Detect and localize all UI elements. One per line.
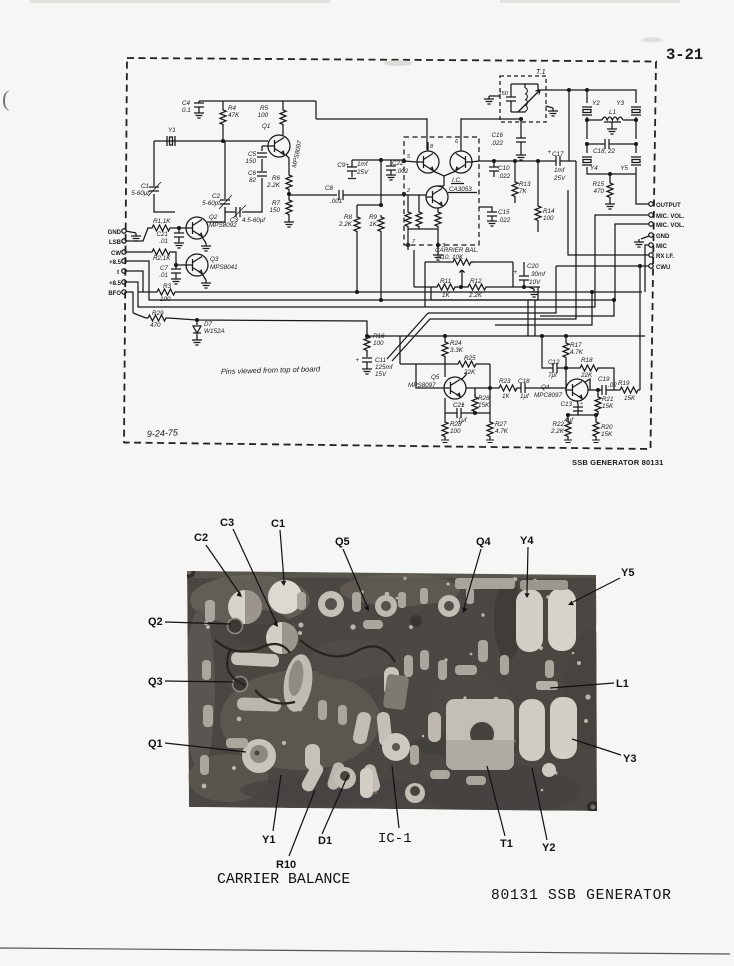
wire loop drop 1 bbox=[527, 300, 529, 336]
pin 5 stub bbox=[403, 154, 418, 163]
svg-text:GND: GND bbox=[656, 234, 670, 240]
wire staircase v2 bbox=[540, 300, 614, 316]
ground below C4 bbox=[194, 110, 204, 118]
capacitor C17 bbox=[540, 149, 576, 182]
terminal GND right bbox=[634, 233, 670, 247]
cap highlight texture bbox=[287, 659, 306, 697]
wire CW to R2 bbox=[126, 251, 150, 253]
transistor Q4 dot bbox=[410, 615, 422, 627]
svg-text:C9+: C9+ bbox=[337, 162, 349, 169]
svg-text:2: 2 bbox=[406, 188, 410, 194]
inductor L1 bbox=[586, 109, 638, 134]
crystal top shadow bbox=[520, 580, 568, 590]
svg-text:100: 100 bbox=[543, 215, 554, 222]
coil can 3 bbox=[438, 595, 460, 617]
svg-text:L1: L1 bbox=[609, 109, 616, 116]
svg-text:1K: 1K bbox=[369, 221, 378, 228]
wire emitter node to C8 bbox=[289, 194, 426, 196]
svg-text:Q3: Q3 bbox=[148, 676, 163, 688]
svg-text:MPS8092: MPS8092 bbox=[209, 222, 237, 229]
terminal MIC VOL 1 bbox=[649, 213, 685, 220]
svg-text:1K: 1K bbox=[502, 393, 511, 400]
crystal Y4 body bbox=[516, 589, 543, 652]
svg-text:150: 150 bbox=[269, 207, 280, 214]
svg-text:C8: C8 bbox=[325, 185, 334, 192]
resistor R3 bbox=[138, 283, 177, 303]
callout L1 bbox=[550, 678, 629, 690]
svg-text:0.1: 0.1 bbox=[182, 107, 191, 114]
capacitor C10 bbox=[489, 161, 511, 180]
terminal RX IF bbox=[649, 253, 675, 260]
terminal t bbox=[117, 269, 126, 276]
svg-text:R29: R29 bbox=[152, 310, 164, 317]
resistor R20 bbox=[593, 414, 613, 440]
junction R17 bottom bbox=[565, 367, 568, 370]
capacitor C15 bbox=[479, 207, 511, 226]
svg-text:15K: 15K bbox=[478, 402, 490, 409]
junction riser bottom bbox=[380, 204, 383, 207]
coil can 2 bbox=[375, 595, 397, 617]
svg-text:1mf: 1mf bbox=[554, 167, 566, 174]
svg-text:(: ( bbox=[2, 86, 9, 111]
IC internal resistor Rb bbox=[416, 195, 422, 229]
crystal Y2 bbox=[582, 90, 600, 139]
transistor Q4 bbox=[534, 379, 588, 401]
small pill 5 bbox=[428, 712, 441, 742]
small pill 6 bbox=[300, 761, 326, 794]
svg-text:15K: 15K bbox=[624, 395, 636, 402]
capacitor C18b bbox=[513, 378, 531, 400]
wire C1 branch bbox=[154, 141, 175, 212]
junction rail R24 bbox=[444, 335, 447, 338]
svg-text:R3: R3 bbox=[163, 283, 172, 290]
wire BFO bus bbox=[126, 292, 133, 313]
junction filter top left bbox=[586, 89, 589, 92]
svg-text:125mf: 125mf bbox=[375, 364, 394, 371]
svg-text:C20: C20 bbox=[527, 263, 539, 270]
svg-text:Y2: Y2 bbox=[542, 842, 555, 854]
svg-text:4.7K: 4.7K bbox=[495, 428, 509, 435]
svg-text:C2: C2 bbox=[194, 532, 208, 544]
svg-text:Q3: Q3 bbox=[210, 256, 219, 263]
dark wires on board bbox=[215, 640, 395, 704]
svg-text:Q2: Q2 bbox=[148, 616, 163, 628]
svg-text:150: 150 bbox=[245, 158, 256, 165]
callout Q3 bbox=[148, 676, 233, 688]
IC internal resistor Ra bbox=[405, 195, 411, 229]
terminal GND bbox=[108, 229, 141, 241]
svg-text:15K: 15K bbox=[601, 431, 613, 438]
resistor R9 bbox=[369, 214, 384, 300]
wire Y1 base rail bbox=[154, 140, 268, 142]
svg-text:Q4: Q4 bbox=[476, 536, 492, 548]
wire diag to C11 area bbox=[387, 313, 428, 359]
svg-text:2.2K: 2.2K bbox=[550, 428, 565, 435]
wire CW branch to R19 bbox=[639, 266, 641, 390]
callout Y4 bbox=[520, 535, 534, 598]
svg-text:+: + bbox=[513, 387, 517, 394]
crystal Y5 bbox=[620, 144, 641, 172]
wire R19 to CW drop bbox=[639, 389, 641, 391]
transformer T1 hole bbox=[470, 722, 494, 746]
svg-text:C4: C4 bbox=[182, 100, 191, 107]
svg-text:R1,1K: R1,1K bbox=[153, 218, 171, 225]
wire Q5 emitter to node bbox=[444, 398, 446, 413]
svg-text:R17: R17 bbox=[570, 342, 582, 349]
junction R15 top bbox=[609, 173, 612, 176]
svg-text:C10: C10 bbox=[498, 165, 510, 172]
resistor R7 bbox=[269, 191, 292, 219]
transistor Q2 bbox=[186, 214, 237, 239]
wire Q1 collector feed down bbox=[315, 101, 317, 119]
bottom rule line bbox=[0, 948, 730, 954]
coil Q5-area can bbox=[318, 591, 344, 617]
resistor R26 bbox=[472, 394, 490, 413]
wire output bbox=[636, 174, 649, 204]
svg-text:R10: R10 bbox=[276, 859, 296, 871]
svg-text:R22: R22 bbox=[552, 421, 564, 428]
svg-text:R26: R26 bbox=[478, 395, 490, 402]
svg-text:C11: C11 bbox=[375, 357, 386, 364]
svg-text:5-60pf: 5-60pf bbox=[202, 200, 221, 207]
callout T1 bbox=[487, 766, 513, 850]
resistor R23 bbox=[497, 378, 519, 400]
svg-text:R21: R21 bbox=[602, 396, 614, 403]
resistor R29 bbox=[133, 310, 168, 329]
ic body near center bbox=[383, 674, 410, 711]
capacitor C8 bbox=[325, 185, 343, 205]
wire +8.5a bus bbox=[126, 224, 649, 300]
wire +8.5b bus bbox=[126, 215, 649, 307]
svg-text:R5: R5 bbox=[260, 105, 269, 112]
svg-text:C12: C12 bbox=[548, 359, 560, 366]
resistor R6 bbox=[266, 173, 292, 191]
wire Q4 emitter node bbox=[568, 401, 598, 415]
transistor Q2 body bbox=[228, 619, 243, 634]
junction R25/Q5 collector bbox=[489, 387, 492, 390]
svg-text:2.2K: 2.2K bbox=[338, 221, 353, 228]
svg-text:7μf: 7μf bbox=[548, 372, 558, 379]
svg-text:C2: C2 bbox=[212, 193, 221, 200]
svg-text:C18, 22: C18, 22 bbox=[593, 148, 616, 155]
resistor R12 bbox=[457, 278, 540, 299]
svg-text:t: t bbox=[117, 270, 119, 276]
capacitor C12 bbox=[541, 335, 566, 379]
junction rail R16 bbox=[366, 335, 369, 338]
svg-text:BFO: BFO bbox=[108, 291, 121, 297]
terminal OUTPUT bbox=[649, 202, 681, 209]
resistor R13 bbox=[512, 161, 531, 203]
wire Q5 Q4 supply rail bbox=[367, 335, 645, 337]
svg-text:Q2: Q2 bbox=[209, 214, 218, 221]
wire R24 bottom node bbox=[400, 336, 445, 364]
transformer T1 shade bbox=[446, 740, 514, 770]
wire pot right down bbox=[512, 262, 514, 287]
capacitor C6 bbox=[248, 170, 267, 184]
transistor Q3 bbox=[186, 254, 238, 276]
svg-text:IC-1: IC-1 bbox=[378, 831, 412, 847]
transistor Q5 bbox=[408, 374, 466, 399]
wire IC emitters join bbox=[433, 171, 456, 186]
svg-text:R12: R12 bbox=[470, 278, 482, 285]
callout C2 bbox=[194, 532, 242, 597]
svg-text:C16: C16 bbox=[491, 132, 503, 139]
svg-text:MIC. VOL.: MIC. VOL. bbox=[656, 223, 685, 229]
electrolytic Q1 bbox=[242, 739, 276, 773]
svg-text:+: + bbox=[580, 401, 583, 407]
svg-text:T.1: T.1 bbox=[536, 69, 546, 76]
svg-text:+: + bbox=[513, 269, 517, 276]
terminal +8.5b bbox=[109, 280, 126, 287]
svg-text:R4: R4 bbox=[228, 105, 237, 112]
wire filter top bbox=[587, 90, 636, 102]
svg-text:.022: .022 bbox=[491, 140, 504, 147]
wire loop bottom bbox=[431, 287, 538, 300]
wire staircase v1 bbox=[495, 292, 592, 325]
resistor R24 bbox=[442, 336, 464, 364]
svg-text:OUTPUT: OUTPUT bbox=[656, 203, 681, 209]
svg-text:.02: .02 bbox=[608, 382, 617, 389]
callout D1 bbox=[318, 775, 348, 847]
pot 2 body bbox=[405, 783, 425, 803]
svg-text:R13: R13 bbox=[519, 181, 531, 188]
wire MIC feed bbox=[645, 245, 649, 292]
junction staircase v2 bbox=[613, 299, 616, 302]
pin 7 stub bbox=[407, 229, 417, 250]
svg-text:CWU: CWU bbox=[656, 265, 670, 271]
junction rail R17 bbox=[565, 335, 568, 338]
wire R3 right long bbox=[177, 291, 642, 293]
svg-text:C17: C17 bbox=[552, 151, 564, 158]
junction R4/Y1 bbox=[222, 140, 225, 143]
capacitor C1 (variable) bbox=[131, 182, 161, 197]
small pill 3 bbox=[352, 711, 372, 745]
crystal Y5 body bbox=[548, 588, 576, 651]
svg-text:CARRIER BALANCE: CARRIER BALANCE bbox=[217, 872, 350, 888]
junction filter/C17 bbox=[568, 89, 571, 92]
wire C2 branch bbox=[207, 141, 225, 222]
junction R9 bus bbox=[380, 299, 383, 302]
svg-text:CW: CW bbox=[111, 251, 121, 257]
svg-text:C21: C21 bbox=[156, 231, 168, 238]
wire y119 to IC T1 collector bbox=[316, 119, 427, 150]
small pill 8 bbox=[363, 763, 382, 793]
svg-text:+8.5: +8.5 bbox=[109, 281, 122, 287]
resistor R14 bbox=[535, 161, 555, 232]
terminal MIC bbox=[649, 243, 668, 250]
svg-text:Q4: Q4 bbox=[541, 384, 550, 391]
resistor R11 bbox=[414, 278, 457, 299]
wire CW right to bus bbox=[556, 265, 649, 267]
terminal CW right bbox=[649, 264, 671, 271]
wire LSB to R1 bbox=[126, 228, 150, 241]
callout IC-1 bbox=[378, 766, 412, 847]
capacitor C5 bbox=[245, 146, 268, 171]
transistor U1-T3 bbox=[426, 186, 448, 208]
resistor R16 bbox=[364, 333, 385, 357]
pcb mottling bbox=[185, 574, 615, 815]
svg-text:25V: 25V bbox=[356, 169, 369, 176]
svg-text:D1: D1 bbox=[318, 835, 332, 847]
capacitor C16 bbox=[491, 118, 526, 160]
wire R24 to Q5 bbox=[444, 364, 446, 377]
trimcap C3 body bbox=[266, 622, 298, 654]
capacitor C4 bbox=[182, 100, 204, 114]
svg-text:9-24-75: 9-24-75 bbox=[147, 427, 179, 439]
svg-text:100: 100 bbox=[373, 340, 384, 347]
svg-text:5-60μf: 5-60μf bbox=[131, 190, 150, 197]
svg-text:+8.5: +8.5 bbox=[109, 260, 122, 266]
bright pill near D1 bbox=[305, 744, 320, 770]
capacitor C11 bbox=[355, 357, 393, 378]
IC internal resistor Rc bbox=[435, 208, 441, 229]
callout Q2 bbox=[148, 616, 231, 628]
pin 3 stub with ground bbox=[433, 229, 446, 260]
wire loop drop 2 bbox=[534, 300, 536, 336]
IC label CA3053 bbox=[448, 177, 477, 193]
svg-text:R23: R23 bbox=[499, 378, 511, 385]
bright pill pair center bottom bbox=[360, 768, 373, 798]
crystal Y3 body bbox=[550, 697, 577, 759]
svg-text:7K: 7K bbox=[519, 188, 528, 195]
resistor pill 1 bbox=[231, 652, 280, 667]
resistor R2 bbox=[150, 249, 172, 262]
callout C3 bbox=[220, 517, 278, 627]
callout R10 bbox=[276, 790, 315, 871]
pot R10 body bbox=[334, 767, 356, 789]
svg-text:R19: R19 bbox=[618, 380, 630, 387]
svg-text:1K: 1K bbox=[442, 292, 451, 299]
callout Q1 bbox=[148, 738, 246, 752]
wire C9 line to IC pin5 bbox=[352, 160, 404, 205]
svg-text:C13: C13 bbox=[560, 401, 572, 408]
small pill 7 bbox=[326, 761, 346, 791]
dark patches bbox=[187, 571, 597, 804]
resistor R19 bbox=[618, 380, 640, 402]
wire C19 to R19 bbox=[606, 389, 618, 391]
resistor R27 bbox=[487, 413, 509, 440]
ground R27 bbox=[486, 440, 494, 443]
svg-text:CARRIER BAL.: CARRIER BAL. bbox=[435, 247, 479, 254]
svg-text:C6: C6 bbox=[248, 170, 257, 177]
svg-text:1μf: 1μf bbox=[520, 393, 530, 400]
svg-text:82: 82 bbox=[249, 177, 257, 184]
svg-text:R20: R20 bbox=[601, 424, 613, 431]
callout Y1 bbox=[262, 775, 281, 846]
svg-text:C15: C15 bbox=[498, 209, 510, 216]
svg-text:Q5: Q5 bbox=[431, 374, 440, 381]
svg-text:Y1: Y1 bbox=[262, 834, 275, 846]
svg-text:30mf: 30mf bbox=[531, 271, 546, 278]
svg-text:MPS8041: MPS8041 bbox=[210, 264, 238, 271]
svg-text:R27: R27 bbox=[495, 421, 507, 428]
wire T1 secondary to filter bbox=[538, 84, 587, 90]
svg-text:15V: 15V bbox=[375, 371, 387, 378]
svg-text:R2,1K: R2,1K bbox=[153, 255, 171, 262]
wire R17 to Q4 base bbox=[565, 368, 567, 390]
svg-text:.001: .001 bbox=[330, 198, 342, 205]
resistor R22 bbox=[550, 414, 571, 440]
screw top-left bbox=[183, 566, 195, 578]
board texture glints bbox=[202, 576, 591, 794]
trimcap C1 body bbox=[268, 580, 302, 614]
svg-text:MPC8097: MPC8097 bbox=[534, 392, 562, 399]
svg-text:C3: C3 bbox=[220, 517, 234, 529]
svg-text:.022: .022 bbox=[498, 217, 511, 224]
svg-text:Y1: Y1 bbox=[168, 127, 176, 134]
junction staircase v1 bbox=[591, 291, 594, 294]
trimcap shading bbox=[245, 590, 298, 654]
svg-text:C18: C18 bbox=[518, 378, 530, 385]
crystal Y4 bbox=[582, 144, 598, 172]
svg-text:2.2K: 2.2K bbox=[468, 292, 483, 299]
svg-text:+: + bbox=[461, 402, 465, 409]
transistor Q1 bbox=[262, 123, 304, 168]
svg-text:Q1: Q1 bbox=[148, 738, 163, 750]
callout C1 bbox=[271, 518, 286, 586]
svg-text:Y5: Y5 bbox=[621, 567, 634, 579]
junction R13 bbox=[514, 160, 517, 163]
pin 2 stub T3 base bbox=[403, 188, 411, 196]
svg-text:Y3: Y3 bbox=[616, 100, 624, 107]
svg-text:C5: C5 bbox=[248, 151, 257, 158]
small pill 4 bbox=[376, 711, 392, 746]
svg-text:R18: R18 bbox=[581, 357, 593, 364]
L1 part bbox=[536, 681, 558, 690]
capacitor C2 (variable) bbox=[202, 193, 232, 209]
wire top rail Q1 bbox=[199, 100, 316, 102]
pcb photo base bbox=[187, 571, 597, 811]
svg-text:100: 100 bbox=[257, 112, 268, 119]
svg-text:W152A: W152A bbox=[204, 328, 225, 335]
capacitor C21 bbox=[156, 227, 184, 248]
junction R14 bbox=[537, 160, 540, 163]
svg-text:25V: 25V bbox=[553, 175, 566, 182]
svg-text:L1: L1 bbox=[616, 678, 629, 690]
big cap center-left bbox=[280, 652, 316, 713]
wire T3 collector bbox=[437, 185, 444, 187]
wire IC output to C17 line bbox=[471, 161, 540, 162]
resistor R17 bbox=[563, 336, 584, 368]
svg-text:80131 SSB GENERATOR: 80131 SSB GENERATOR bbox=[491, 888, 672, 904]
faint smudge top bbox=[30, 0, 680, 66]
board small components scatter bbox=[200, 588, 554, 785]
junction CW branch bbox=[639, 265, 642, 268]
wire Q5 out to R23 bbox=[466, 387, 497, 389]
svg-text:Y4: Y4 bbox=[520, 535, 534, 547]
capacitor C13 bbox=[560, 401, 583, 424]
svg-text:GND: GND bbox=[108, 230, 122, 236]
wire R2 to Q3 base bbox=[172, 252, 186, 265]
svg-text:C1: C1 bbox=[271, 518, 285, 530]
svg-text:+: + bbox=[547, 149, 551, 156]
capacitor C22 bbox=[386, 160, 409, 180]
resistor R1 bbox=[150, 218, 172, 231]
junction R8 bus bbox=[356, 291, 359, 294]
junction T1 sec bbox=[460, 118, 462, 120]
svg-text:4.7K: 4.7K bbox=[570, 349, 584, 356]
trimcap C2 body bbox=[228, 590, 262, 624]
svg-text:Y3: Y3 bbox=[623, 753, 636, 765]
terminal BFO bbox=[108, 290, 126, 297]
resistor pill 2 bbox=[237, 697, 281, 712]
capacitor C18 filter bbox=[586, 139, 638, 155]
transistor U1-T1 bbox=[417, 151, 439, 173]
svg-text:R7: R7 bbox=[272, 200, 281, 207]
op-amp U1 IC CA3053 dashed box bbox=[404, 137, 479, 245]
transformer T1 dashed box bbox=[500, 76, 546, 122]
svg-text:+: + bbox=[355, 357, 359, 364]
